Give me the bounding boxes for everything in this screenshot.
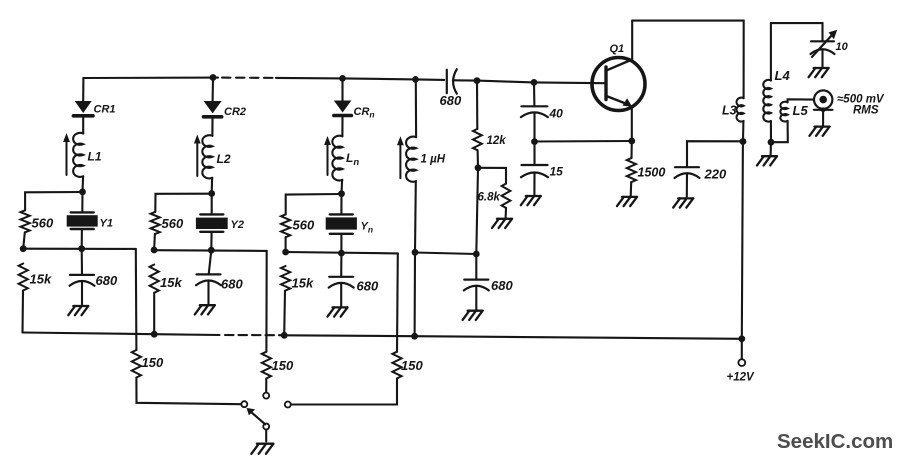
node H bbox=[740, 138, 747, 145]
node C2 crystal bottom bbox=[208, 247, 215, 254]
resistor 15k ch2 bbox=[150, 265, 159, 293]
label 560 ch2 bbox=[162, 216, 184, 231]
node Cn crystal bottom bbox=[338, 250, 345, 257]
wire L4 top bbox=[771, 23, 823, 41]
diode CRn bbox=[334, 101, 352, 116]
label +12V bbox=[727, 372, 756, 384]
wire collector top to L3 bbox=[632, 21, 744, 99]
svg-text:10: 10 bbox=[836, 41, 849, 53]
wire node An to 560-n bbox=[286, 194, 342, 214]
svg-text:15k: 15k bbox=[30, 272, 52, 287]
svg-text:SeekIC.com: SeekIC.com bbox=[777, 430, 893, 453]
ground mid cap bbox=[463, 311, 483, 320]
node I bbox=[768, 139, 775, 146]
wire L3 to node H bbox=[742, 121, 745, 142]
wire Y2 top bbox=[211, 194, 213, 215]
svg-text:680: 680 bbox=[491, 278, 513, 293]
wire 12k to node F bbox=[477, 150, 479, 168]
wire C1 to cap bbox=[81, 249, 83, 275]
switch contact 1 bbox=[241, 401, 247, 407]
node Bn bbox=[282, 249, 289, 256]
wire 6.8k to ground bbox=[505, 208, 507, 218]
wire 150-2 stub bbox=[265, 378, 267, 392]
label L2 bbox=[217, 152, 231, 166]
wire bus dashed bbox=[225, 334, 280, 336]
wire cap2 to ground bbox=[207, 281, 209, 305]
diode CR1 bbox=[73, 101, 93, 116]
wire node line chn bbox=[286, 252, 398, 253]
svg-text:L5: L5 bbox=[793, 103, 809, 118]
transistor Q1 base bar bbox=[604, 67, 607, 100]
svg-text:L3: L3 bbox=[722, 104, 737, 118]
wire collector up bbox=[631, 21, 633, 59]
crystal Yn bbox=[326, 214, 357, 233]
label 1uH bbox=[421, 154, 446, 166]
wire node H to 220 bbox=[687, 141, 743, 167]
label Y1 bbox=[100, 218, 113, 230]
node 15k-n bus junction bbox=[281, 332, 288, 339]
wire emitter node to 1500 bbox=[630, 141, 632, 158]
node 15k-2 bus junction bbox=[151, 331, 158, 338]
svg-text:680: 680 bbox=[96, 273, 118, 288]
ground 15 cap bbox=[521, 196, 541, 205]
wire node A1 to 560-1 bbox=[25, 192, 82, 210]
node B1 bbox=[20, 245, 27, 252]
node E bbox=[473, 251, 480, 258]
wire node I to ground bbox=[770, 142, 773, 155]
capacitor 680 mid bbox=[464, 280, 489, 291]
label 220 bbox=[704, 167, 727, 182]
wire top rail dashed segment bbox=[222, 77, 276, 79]
svg-text:220: 220 bbox=[704, 167, 727, 182]
svg-text:Y1: Y1 bbox=[100, 218, 113, 230]
node rail-CRn junction bbox=[339, 75, 346, 82]
wire L4 top down bbox=[770, 23, 772, 80]
node 1uH bus junction bbox=[411, 333, 418, 340]
connector J1 center pin bbox=[819, 96, 827, 104]
wire ch2 down to 150 bbox=[265, 251, 267, 352]
resistor 15k ch1 bbox=[19, 264, 28, 291]
wire node D to bus bbox=[414, 252, 416, 336]
node F bbox=[475, 164, 482, 171]
label Ln bbox=[346, 151, 359, 168]
capacitor 680 ch2 bbox=[196, 274, 221, 285]
label CR2 bbox=[224, 106, 246, 118]
ground 220 bbox=[673, 198, 693, 207]
label L4 bbox=[775, 68, 791, 83]
transistor Q1 emitter stroke bbox=[607, 96, 628, 104]
wire 150-n to switch bbox=[291, 378, 397, 404]
svg-text:L4: L4 bbox=[775, 68, 791, 83]
wire capn to ground bbox=[340, 283, 342, 307]
wire L1 to node bbox=[81, 176, 84, 192]
switch pivot bbox=[263, 424, 269, 430]
label 15k ch2 bbox=[160, 275, 182, 290]
ground connector bbox=[810, 127, 830, 136]
svg-text:L2: L2 bbox=[217, 152, 231, 166]
label 680 chn bbox=[357, 279, 379, 294]
wire node E to cap bbox=[475, 254, 477, 280]
wire 560-1 to node B1 bbox=[23, 232, 25, 248]
svg-text:560: 560 bbox=[162, 216, 184, 231]
svg-text:15k: 15k bbox=[160, 275, 182, 290]
node rail-L junction bbox=[412, 76, 419, 83]
svg-text:12k: 12k bbox=[487, 135, 507, 147]
label CRn bbox=[354, 106, 375, 120]
label L1 bbox=[88, 150, 102, 164]
terminal +12V bbox=[738, 359, 745, 366]
wire rail to CRn bbox=[341, 78, 343, 100]
wire Ln to node bbox=[340, 180, 343, 194]
connector J1 outer bbox=[814, 90, 832, 108]
diode CR2 bbox=[204, 101, 222, 117]
svg-text:+12V: +12V bbox=[727, 372, 756, 384]
wire rail to 40pF bbox=[533, 82, 536, 106]
label 15 bbox=[550, 165, 564, 179]
label 10 bbox=[836, 41, 849, 53]
wire 15k-2 to bus bbox=[153, 293, 155, 334]
wire L4 to node I bbox=[770, 121, 772, 142]
wire node A2 to 560-2 bbox=[155, 194, 211, 212]
node emitter junction bbox=[628, 138, 635, 145]
svg-text:150: 150 bbox=[142, 355, 164, 370]
svg-text:Q1: Q1 bbox=[610, 43, 625, 55]
capacitor 10 trimmer bbox=[811, 41, 835, 54]
node +12V bus junction bbox=[738, 335, 745, 342]
label 150 chn bbox=[401, 358, 423, 373]
switch contact 3 bbox=[285, 402, 291, 408]
wire L2 to node bbox=[211, 178, 214, 194]
label 560 chn bbox=[293, 218, 315, 233]
label L5 bbox=[793, 103, 809, 118]
wire pivot to ground bbox=[265, 430, 267, 442]
label output level bbox=[837, 94, 885, 117]
svg-text:L1: L1 bbox=[88, 150, 102, 164]
transistor Q1 collector stroke bbox=[607, 60, 632, 71]
wire 220 to ground bbox=[686, 174, 688, 198]
svg-text:Y2: Y2 bbox=[231, 219, 244, 231]
wire chn down to 150 bbox=[396, 253, 399, 351]
ground L4L5 bbox=[757, 156, 777, 165]
arrow L1 tuning bbox=[63, 133, 70, 175]
label Q1 bbox=[610, 43, 625, 55]
capacitor 220 bbox=[675, 167, 700, 178]
connector J1 shell bar bbox=[814, 107, 833, 112]
arrow L2 tuning bbox=[194, 135, 201, 177]
wire C2 to cap bbox=[209, 250, 212, 274]
label 40 bbox=[549, 107, 564, 121]
wire 560-n to node Bn bbox=[285, 237, 287, 252]
crystal Y1 bbox=[67, 212, 98, 229]
svg-text:6.8k: 6.8k bbox=[478, 192, 501, 204]
node rail-40pF junction bbox=[531, 79, 538, 86]
label 560 ch1 bbox=[32, 216, 54, 231]
wire node G to emitter bbox=[535, 140, 632, 143]
node B2 bbox=[151, 247, 158, 254]
wire node D to node E bbox=[415, 253, 476, 255]
wire 15 to ground bbox=[533, 173, 535, 196]
wire node G to 15pF bbox=[533, 142, 535, 165]
label L3 bbox=[722, 104, 737, 118]
resistor 1500 bbox=[627, 158, 636, 182]
svg-text:CR1: CR1 bbox=[94, 104, 116, 116]
resistor 6.8k bbox=[502, 184, 511, 208]
wire 1500 to ground bbox=[630, 182, 633, 196]
ground ch1 cap bbox=[68, 306, 88, 315]
label 6.8k bbox=[478, 192, 501, 204]
wire CR1 to L1 bbox=[82, 118, 84, 134]
wire rail to CR1 bbox=[82, 78, 84, 101]
svg-text:680: 680 bbox=[357, 279, 379, 294]
wire CRn to Ln bbox=[341, 117, 343, 136]
resistor 150 chn bbox=[392, 352, 401, 379]
label 680 ch1 bbox=[96, 273, 118, 288]
label Y2 bbox=[231, 219, 244, 231]
wire connector to ground bbox=[822, 110, 824, 126]
ground switch bbox=[251, 444, 273, 454]
svg-text:15: 15 bbox=[550, 165, 564, 179]
wire node F down to node E bbox=[476, 168, 478, 254]
svg-text:680: 680 bbox=[221, 277, 243, 292]
wire top rail middle segment bbox=[276, 78, 444, 80]
svg-text:150: 150 bbox=[272, 358, 294, 373]
wire rail to coupling cap bbox=[0, 0, 1, 1]
inductor L3 bbox=[737, 98, 744, 122]
label 15k ch1 bbox=[30, 272, 52, 287]
wire 560-2 to node B2 bbox=[153, 234, 156, 250]
resistor 560 ch1 bbox=[21, 210, 30, 232]
node D bbox=[412, 249, 419, 256]
wire Y1 top bbox=[81, 192, 83, 212]
transistor Q1 circle bbox=[592, 58, 645, 111]
wire Cn to cap bbox=[340, 253, 342, 277]
wire emitter down bbox=[631, 107, 633, 141]
wire +12V stub bbox=[741, 339, 743, 359]
svg-text:CR2: CR2 bbox=[224, 106, 246, 118]
node C1 crystal bottom bbox=[78, 245, 85, 252]
wire L5 bottom bbox=[771, 121, 788, 142]
node G bbox=[531, 138, 538, 145]
node A1 crystal top bbox=[79, 189, 86, 196]
wire bus solid left bbox=[23, 333, 220, 336]
resistor 560 ch2 bbox=[151, 212, 160, 234]
capacitor 680 coupling plate bbox=[446, 70, 448, 94]
node rail-CR2 junction bbox=[210, 74, 217, 81]
label 680 mid bbox=[491, 278, 513, 293]
svg-text:680: 680 bbox=[440, 93, 462, 108]
resistor 12k bbox=[473, 129, 482, 150]
node A2 crystal top bbox=[208, 190, 215, 197]
wire 15k-n to bus bbox=[283, 291, 286, 336]
wire L5 top bbox=[788, 99, 814, 102]
label 12k bbox=[487, 135, 507, 147]
inductor L2 bbox=[202, 135, 212, 178]
wire 40 to node G bbox=[533, 113, 535, 142]
capacitor 10 arrow bbox=[812, 30, 837, 57]
wire 15k-1 to bus bbox=[21, 291, 24, 333]
inductor 1uH bbox=[406, 137, 416, 182]
switch contact 2 bbox=[263, 393, 269, 399]
capacitor 680 chn bbox=[329, 277, 354, 288]
wire Y2 bottom bbox=[210, 232, 212, 250]
wire CR2 to L2 bbox=[211, 119, 213, 136]
svg-text:1500: 1500 bbox=[638, 166, 666, 180]
capacitor 680 ch1 bbox=[70, 275, 95, 286]
label 1500 bbox=[638, 166, 666, 180]
svg-text:40: 40 bbox=[549, 107, 564, 121]
label 150 ch1 bbox=[142, 355, 164, 370]
capacitor 40 bbox=[521, 106, 548, 117]
arrow 1uH tuning bbox=[397, 136, 404, 178]
label CR1 bbox=[94, 104, 116, 116]
wire Yn top bbox=[340, 194, 342, 215]
wire top rail left segment bbox=[83, 77, 218, 80]
node rail-12k junction bbox=[474, 77, 481, 84]
ground 6.8k bbox=[492, 219, 512, 228]
arrow Ln tuning bbox=[324, 136, 331, 175]
wire node H to bus corner bbox=[742, 142, 743, 339]
label 680 ch2 bbox=[221, 277, 243, 292]
wire node line ch1 bbox=[23, 248, 136, 250]
node An crystal top bbox=[338, 190, 345, 197]
svg-text:560: 560 bbox=[32, 216, 54, 231]
wire bus right bbox=[280, 335, 742, 339]
inductor L1 bbox=[73, 133, 83, 177]
wire Y1 bottom bbox=[81, 229, 83, 249]
wire cap1 to ground bbox=[81, 282, 83, 306]
svg-text:RMS: RMS bbox=[853, 105, 879, 117]
wire cap mid to ground bbox=[475, 286, 477, 310]
label 15k chn bbox=[292, 276, 314, 291]
ground ch2 cap bbox=[195, 305, 215, 314]
svg-text:1 µH: 1 µH bbox=[421, 154, 446, 166]
wire node F to 6.8k bbox=[478, 168, 506, 184]
wire rail to 12k bbox=[476, 81, 478, 129]
wire 1uH to node D bbox=[414, 181, 417, 252]
wire Yn bottom bbox=[340, 234, 342, 253]
resistor 150 ch1 bbox=[132, 350, 141, 378]
ground trimmer bbox=[809, 68, 829, 77]
watermark SeekIC.com bbox=[777, 430, 893, 453]
switch arm bbox=[247, 408, 266, 424]
wire node line ch2 bbox=[154, 249, 267, 252]
capacitor 680 coupling arc bbox=[453, 69, 457, 94]
transistor Q1 emitter arrow bbox=[623, 98, 633, 107]
label 680 coupling bbox=[440, 93, 462, 108]
wire rail to 1uH bbox=[415, 79, 417, 137]
capacitor 15 bbox=[521, 165, 548, 177]
inductor L5 bbox=[780, 102, 787, 122]
wire 150-1 to switch bbox=[136, 378, 241, 405]
wire top rail right segment to base bbox=[453, 80, 605, 83]
label 150 ch2 bbox=[272, 358, 294, 373]
svg-text:15k: 15k bbox=[292, 276, 314, 291]
crystal Y2 bbox=[196, 214, 228, 231]
ground chn cap bbox=[328, 307, 348, 316]
svg-text:150: 150 bbox=[401, 358, 423, 373]
resistor 150 ch2 bbox=[262, 352, 271, 379]
label Yn bbox=[361, 221, 374, 235]
wire trimmer to ground bbox=[821, 50, 823, 67]
wire rail to CR2 bbox=[212, 78, 214, 102]
resistor 15k chn bbox=[281, 266, 290, 291]
ground 1500 bbox=[617, 197, 637, 206]
svg-text:560: 560 bbox=[293, 218, 315, 233]
resistor 560 chn bbox=[281, 214, 290, 237]
inductor Ln bbox=[332, 136, 342, 181]
wire ch1 down to 150 bbox=[135, 249, 138, 350]
inductor L4 bbox=[763, 80, 771, 122]
